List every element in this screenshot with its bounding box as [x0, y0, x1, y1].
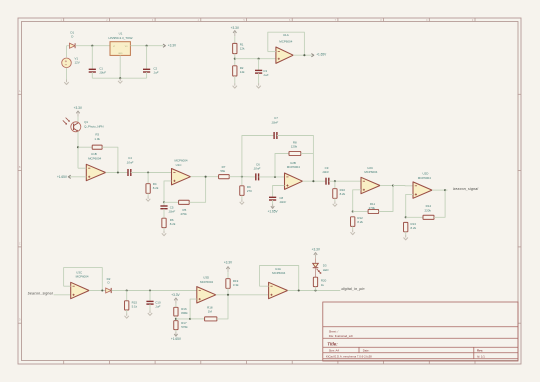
svg-text:GND: GND	[118, 53, 123, 55]
svg-text:LED: LED	[323, 268, 329, 272]
svg-text:Q_Photo_NPN: Q_Photo_NPN	[84, 124, 103, 128]
svg-text:U3C: U3C	[76, 270, 82, 274]
svg-text:D: D	[107, 280, 109, 284]
svg-text:digital_in_pin: digital_in_pin	[342, 287, 365, 291]
svg-text:+3.3V: +3.3V	[171, 293, 180, 297]
svg-text:+1.65V: +1.65V	[171, 337, 182, 341]
svg-text:1uF: 1uF	[263, 73, 268, 77]
svg-text:120k: 120k	[291, 145, 298, 149]
svg-text:+3.3V: +3.3V	[224, 260, 233, 264]
svg-text:MCP6004: MCP6004	[279, 39, 292, 43]
svg-text:beacon_signal: beacon_signal	[28, 292, 53, 296]
svg-text:1uF: 1uF	[153, 71, 158, 75]
svg-text:1.0k: 1.0k	[94, 137, 100, 141]
svg-text:+3.3V: +3.3V	[231, 26, 240, 30]
svg-text:Date:: Date:	[363, 349, 370, 353]
svg-text:+1.65V: +1.65V	[316, 52, 327, 56]
svg-text:+1.65V: +1.65V	[57, 175, 68, 179]
svg-text:MCP6004: MCP6004	[200, 280, 213, 284]
svg-text:10nF: 10nF	[271, 120, 278, 124]
svg-text:270: 270	[247, 189, 252, 193]
svg-text:270k: 270k	[369, 206, 376, 210]
svg-text:R20: R20	[321, 278, 327, 282]
svg-text:MCP6004: MCP6004	[272, 271, 285, 275]
svg-text:12V: 12V	[75, 60, 80, 64]
svg-text:U2D: U2D	[423, 171, 429, 175]
svg-text:C: C	[19, 242, 21, 245]
svg-text:1uF: 1uF	[155, 305, 160, 309]
svg-text:U1A: U1A	[283, 33, 289, 37]
svg-text:D3: D3	[323, 263, 327, 267]
svg-text:D: D	[19, 319, 21, 322]
svg-text:14k: 14k	[240, 70, 245, 74]
svg-text:MCP6004: MCP6004	[418, 176, 431, 180]
svg-text:5.1k: 5.1k	[132, 304, 138, 308]
svg-text:MCP6004: MCP6004	[287, 165, 300, 169]
svg-text:+3.3V: +3.3V	[74, 106, 83, 110]
svg-text:56k: 56k	[220, 169, 225, 173]
svg-text:U1: U1	[119, 32, 123, 36]
svg-text:+3.3V: +3.3V	[168, 43, 177, 47]
svg-text:576k: 576k	[181, 325, 188, 329]
svg-text:10nF: 10nF	[279, 200, 286, 204]
svg-text:beacon_signal: beacon_signal	[453, 187, 478, 191]
svg-text:220k: 220k	[425, 208, 432, 212]
svg-text:1M: 1M	[208, 310, 213, 314]
svg-text:Size: A4: Size: A4	[329, 349, 340, 353]
svg-text:8.2k: 8.2k	[340, 192, 346, 196]
svg-text:U1B: U1B	[91, 152, 97, 156]
svg-text:D: D	[71, 35, 73, 39]
svg-text:1k: 1k	[321, 283, 325, 287]
svg-text:Title:: Title:	[327, 342, 338, 347]
svg-text:8.2k: 8.2k	[170, 222, 176, 226]
svg-text:8.2k: 8.2k	[153, 186, 159, 190]
svg-text:U2B: U2B	[290, 161, 296, 165]
svg-text:470k: 470k	[180, 212, 187, 216]
svg-text:U3D: U3D	[203, 275, 209, 279]
svg-text:MCP6004: MCP6004	[76, 275, 89, 279]
svg-text:806k: 806k	[181, 311, 188, 315]
svg-text:File: final.kicad_sch: File: final.kicad_sch	[329, 334, 354, 338]
svg-text:10nF: 10nF	[322, 170, 329, 174]
svg-text:10nF: 10nF	[168, 209, 175, 213]
svg-text:Sheet: /: Sheet: /	[329, 329, 339, 333]
svg-text:+1.65V: +1.65V	[268, 210, 279, 214]
svg-text:10nF: 10nF	[127, 160, 134, 164]
svg-text:10nF: 10nF	[254, 167, 261, 171]
svg-text:8.2k: 8.2k	[357, 220, 363, 224]
svg-text:VO: VO	[125, 46, 128, 48]
svg-text:KiCad E.D.A. eeschema 7.0.6-2: KiCad E.D.A. eeschema 7.0.6-2.fc38	[326, 355, 372, 359]
svg-text:10uF: 10uF	[99, 71, 106, 75]
svg-text:+3.3V: +3.3V	[312, 248, 321, 252]
svg-text:U1C: U1C	[176, 163, 183, 167]
svg-text:Id: 1/1: Id: 1/1	[477, 355, 485, 359]
svg-text:LP2950-3.3_TO92: LP2950-3.3_TO92	[108, 36, 132, 40]
svg-text:12k: 12k	[240, 47, 245, 51]
svg-text:8.2k: 8.2k	[411, 226, 417, 230]
svg-text:3.3k: 3.3k	[233, 283, 239, 287]
svg-text:Rev:: Rev:	[477, 349, 483, 353]
svg-text:MCP6004: MCP6004	[364, 170, 377, 174]
svg-text:MCP6004: MCP6004	[88, 156, 101, 160]
